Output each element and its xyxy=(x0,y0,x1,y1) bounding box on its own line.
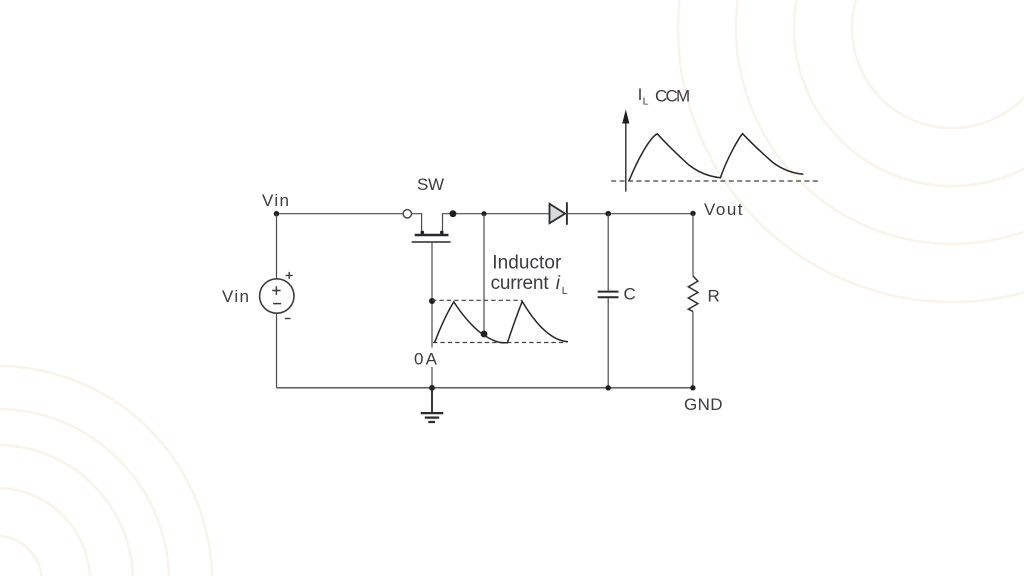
capacitor C top plate xyxy=(598,291,619,293)
transistor SW gate bar xyxy=(412,241,451,243)
svg-text:R: R xyxy=(708,286,720,305)
svg-text:GND: GND xyxy=(684,395,723,414)
wire: inductor current probe line xyxy=(483,214,485,334)
node: inductor-current tap junction xyxy=(481,211,486,216)
svg-text:C: C xyxy=(624,285,636,304)
node: ground junction xyxy=(429,385,435,391)
wire: capacitor branch upper xyxy=(607,214,609,291)
diode D1 cathode bar xyxy=(566,202,568,225)
svg-text:Inductor: Inductor xyxy=(492,253,562,274)
svg-text:current: current xyxy=(491,273,550,294)
source Vin inner plus xyxy=(272,286,280,294)
wire: source stub to diode anode xyxy=(443,214,550,232)
node: capacitor bottom junction xyxy=(606,385,611,390)
axis: I_L CCM vertical arrow xyxy=(625,123,627,192)
svg-text:Vout: Vout xyxy=(704,200,743,219)
wire: diode cathode to Vout node xyxy=(568,213,693,215)
source Vin circle xyxy=(260,279,294,313)
source Vin inner minus xyxy=(273,303,281,305)
transistor SW bubble terminal xyxy=(403,210,411,218)
dashed line: peak level of inductor current xyxy=(432,299,522,301)
svg-text:Vin: Vin xyxy=(222,287,249,306)
node Vin (junction dot) xyxy=(274,211,279,216)
svg-text:Vin: Vin xyxy=(262,191,289,210)
transistor SW source contact dot xyxy=(440,231,444,235)
waveform: inductor current DCM xyxy=(435,301,569,342)
transistor SW drain contact dot xyxy=(421,231,425,235)
svg-text:L: L xyxy=(643,96,649,108)
capacitor C bottom plate xyxy=(598,296,619,298)
resistor R zigzag xyxy=(688,276,698,312)
wire: bubble to drain stub xyxy=(412,214,422,232)
svg-text:0 A: 0 A xyxy=(414,349,438,368)
wire: left branch Vin node down to source xyxy=(276,214,278,279)
wire: resistor branch lower xyxy=(692,311,694,387)
node: 0A reference dot on gate line xyxy=(429,298,435,304)
node Vout xyxy=(690,211,695,216)
node: resistor bottom junction xyxy=(690,385,695,390)
wire: ground rail xyxy=(277,387,693,389)
dashed line: zero level of inductor current xyxy=(433,342,566,344)
node: capacitor top junction xyxy=(605,211,611,217)
ground symbol bars xyxy=(421,413,444,422)
node: SW source junction xyxy=(449,210,456,217)
source Vin outer plus xyxy=(286,272,293,279)
wire: gate bar down to ground rail xyxy=(431,242,433,388)
svg-text:CCM: CCM xyxy=(655,87,690,106)
waveform: inductor current CCM xyxy=(629,134,803,181)
dashed line: CCM zero baseline xyxy=(611,180,819,182)
label 0 A (with knockout over gate line) xyxy=(408,348,441,368)
node: probe end dot on waveform xyxy=(481,331,488,338)
svg-text:L: L xyxy=(562,285,568,297)
wire: capacitor branch lower xyxy=(607,298,609,388)
wire: Vin node to SW gate bubble xyxy=(277,213,404,215)
ground symbol stem xyxy=(431,388,433,412)
wire: resistor branch upper xyxy=(692,213,694,276)
diode D1 triangle xyxy=(550,204,566,224)
source Vin outer minus xyxy=(285,318,291,320)
transistor SW channel bar xyxy=(415,234,449,236)
svg-text:SW: SW xyxy=(417,175,444,194)
wire: source down to ground rail xyxy=(276,313,278,388)
